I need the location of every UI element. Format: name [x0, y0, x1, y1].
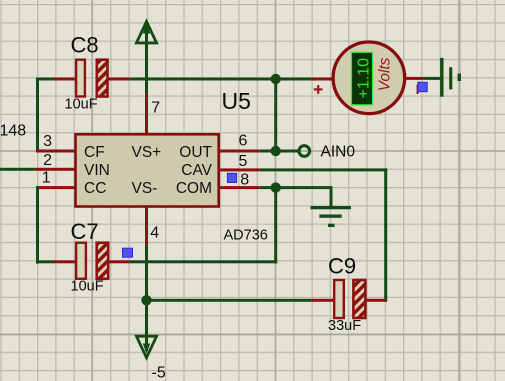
capacitor C7 [76, 243, 108, 279]
svg-text:CF: CF [84, 144, 105, 161]
pin name CAV [181, 162, 212, 179]
svg-text:C8: C8 [71, 33, 99, 58]
svg-text:AIN0: AIN0 [321, 144, 356, 161]
wire: VIN from left edge to pin 2 [0, 168, 76, 171]
terminal AIN0 circle [299, 146, 310, 157]
svg-text:5: 5 [239, 153, 248, 170]
capacitor C8 [76, 60, 107, 97]
svg-text:3: 3 [43, 133, 52, 150]
voltmeter Volts label [377, 57, 394, 91]
wire: -5 rail to C9 left plate [147, 299, 334, 302]
voltmeter body [333, 42, 405, 114]
pin name OUT [179, 144, 212, 161]
voltmeter + terminal mark [314, 85, 323, 94]
svg-text:148: 148 [0, 123, 26, 140]
svg-text:8: 8 [240, 171, 249, 188]
capacitor C9 [334, 280, 365, 318]
svg-text:10uF: 10uF [71, 279, 104, 295]
svg-text:2: 2 [43, 152, 52, 169]
pin name VIN [84, 162, 110, 179]
svg-text:CAV: CAV [181, 162, 212, 179]
wire: CAV pin 5 to right, down to C9 right plate [219, 168, 388, 301]
blue marker near battery [418, 82, 427, 91]
pin name CC [84, 180, 106, 197]
pin number 8 [240, 171, 249, 188]
value 10uF (C7) [71, 279, 104, 295]
wire: C8 left lead, corner at left going down to pin 3 (CF) [36, 78, 77, 150]
svg-text:6: 6 [239, 133, 248, 150]
wire: COM pin 8 stub to junction, to ground and down to C7 [108, 186, 332, 263]
svg-text:-5: -5 [152, 365, 166, 381]
svg-text:1: 1 [42, 169, 51, 186]
wire: C7 left lead, vertical from pin 1 down then right [36, 186, 77, 264]
pin number 5 [239, 153, 248, 170]
label 148 (clipped net label at left edge) [0, 123, 26, 140]
svg-text:33uF: 33uF [328, 318, 361, 334]
wire: OUT pin 6 stub and link to AIN0 [219, 150, 299, 153]
svg-text:10uF: 10uF [65, 97, 98, 113]
junction dot at COM pin [271, 182, 281, 192]
svg-text:+1.10: +1.10 [355, 58, 372, 99]
junction dot at OUT pin [271, 146, 281, 156]
svg-text:C7: C7 [71, 219, 99, 244]
label C8 [71, 33, 99, 58]
wire: pin 3 CF stub [36, 150, 76, 153]
pin name VS+ [132, 144, 162, 161]
svg-text:VIN: VIN [84, 162, 110, 179]
svg-text:CC: CC [84, 180, 106, 197]
svg-text:VS+: VS+ [132, 144, 162, 161]
pin number 6 [239, 133, 248, 150]
pin number 1 [42, 169, 51, 186]
power symbol -5 arrow at bottom [136, 336, 156, 358]
power symbol +5 arrow at top [136, 22, 156, 95]
wire: vertical from OUT junction up to top net [274, 78, 277, 151]
svg-text:AD736: AD736 [224, 228, 268, 244]
junction dot at -5 rail [141, 295, 151, 305]
pin name CF [84, 144, 105, 161]
wire: pin 1 CC stub [36, 186, 76, 189]
label AIN0 [321, 144, 356, 161]
value 10uF (C8) [65, 97, 98, 113]
pin number 3 [43, 133, 52, 150]
value AD736 [224, 228, 268, 244]
svg-text:C9: C9 [328, 254, 356, 279]
svg-text:OUT: OUT [179, 144, 212, 161]
junction dot at top wire [271, 74, 281, 84]
wire: voltmeter to battery [405, 77, 441, 80]
wire: main OUT net horizontal at top (C8 right plate to voltmeter +) [108, 78, 333, 81]
pin number 2 [43, 152, 52, 169]
svg-text:7: 7 [151, 100, 160, 117]
battery B1 [440, 58, 461, 97]
label U5 [222, 88, 251, 114]
pin number 4 [150, 225, 159, 242]
voltmeter LCD display [352, 52, 373, 105]
op-amp U5 chip body AD736 [76, 134, 219, 206]
svg-text:VS-: VS- [132, 180, 158, 197]
value 33uF (C9) [328, 318, 361, 334]
pin number 7 [151, 100, 160, 117]
svg-text:COM: COM [176, 180, 212, 197]
ground symbol [311, 206, 351, 227]
svg-text:U5: U5 [222, 88, 251, 114]
blue marker near C7 [123, 248, 133, 257]
voltmeter - terminal mark [417, 85, 419, 95]
pin name COM [176, 180, 212, 197]
label -5 [152, 365, 166, 381]
blue marker near pin 8 [227, 173, 236, 182]
svg-text:Volts: Volts [377, 57, 394, 91]
wire: pin 7 VS+ stub (red) [145, 94, 148, 135]
wire: pin 4 VS- stub and -5 rail down [145, 207, 148, 352]
label C9 [328, 254, 356, 279]
svg-text:4: 4 [150, 225, 159, 242]
pin name VS- [132, 180, 158, 197]
label C7 [71, 219, 99, 244]
